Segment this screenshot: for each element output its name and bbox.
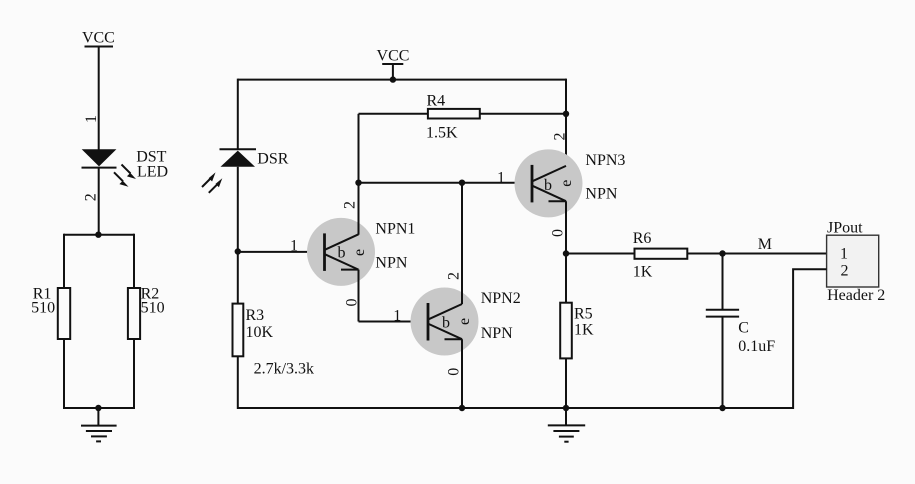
svg-text:2.7k/3.3k: 2.7k/3.3k — [254, 361, 314, 378]
svg-text:NPN: NPN — [375, 255, 407, 272]
wire NPN3 emitter down — [565, 201, 567, 254]
node DSR/R3/NPN1 base — [235, 248, 241, 254]
svg-text:NPN1: NPN1 — [375, 220, 415, 237]
node R6 / C / M — [719, 250, 725, 256]
svg-text:0.1uF: 0.1uF — [738, 338, 775, 355]
svg-text:2: 2 — [552, 133, 569, 141]
svg-text:e: e — [558, 180, 575, 187]
label NPN1 — [375, 220, 415, 271]
svg-text:0: 0 — [446, 368, 463, 376]
connector JPout (Header 2) — [827, 219, 886, 304]
transistor Q NPN3 — [515, 149, 583, 217]
svg-text:b: b — [338, 245, 346, 262]
svg-text:510: 510 — [31, 300, 55, 317]
svg-text:R3: R3 — [246, 307, 265, 324]
node NPN2 emitter at bottom rail — [459, 405, 465, 411]
resistor R5 — [560, 303, 594, 359]
transistor Q NPN2 — [411, 288, 479, 356]
svg-text:DSR: DSR — [257, 151, 288, 168]
wire base rail of NPN3 — [359, 182, 533, 184]
node (left top) — [95, 232, 101, 238]
svg-text:2: 2 — [83, 193, 100, 201]
wire header pin2 — [793, 269, 827, 409]
svg-text:b: b — [544, 177, 552, 194]
svg-text:C: C — [738, 320, 749, 337]
wire rail down to DSR — [237, 79, 239, 150]
transistor Q NPN1 — [307, 218, 375, 286]
wire VCC to LED DST anode — [98, 47, 100, 151]
svg-text:10K: 10K — [246, 324, 274, 341]
wire R2 to bottom — [133, 339, 135, 409]
node at 358.5/182.7 — [355, 180, 361, 186]
wire top rail — [238, 79, 566, 81]
resistor R4 — [359, 93, 567, 142]
svg-text:LED: LED — [137, 163, 168, 180]
svg-text:Header 2: Header 2 — [827, 287, 885, 304]
svg-text:NPN2: NPN2 — [481, 290, 521, 307]
wire R3 to bottom rail — [237, 356, 239, 409]
wire node to R3 — [237, 252, 239, 304]
wire NPN1 emitter down — [358, 270, 360, 322]
wire rail down to NPN3 collector — [565, 79, 567, 166]
node R4 right — [563, 111, 569, 117]
svg-text:1: 1 — [393, 308, 401, 325]
svg-text:VCC: VCC — [377, 48, 410, 65]
wire bottom of R1/R2 loop — [64, 407, 134, 409]
svg-text:510: 510 — [141, 300, 165, 317]
photodiode DSR — [202, 149, 256, 193]
svg-text:e: e — [456, 318, 473, 325]
wire top of R1/R2 loop — [64, 234, 134, 236]
wire R1 to bottom — [63, 339, 65, 409]
wire node to R5 — [565, 254, 567, 303]
svg-text:NPN: NPN — [585, 186, 617, 203]
wire right branch to R2 — [133, 234, 135, 288]
node VCC on top rail — [390, 76, 396, 82]
svg-text:R4: R4 — [427, 93, 446, 110]
svg-text:1.5K: 1.5K — [426, 125, 458, 142]
svg-text:NPN3: NPN3 — [585, 152, 625, 169]
resistor R1 — [31, 286, 70, 340]
wire NPN1 base — [238, 251, 325, 253]
node C bottom — [719, 405, 725, 411]
wire left branch to R1 — [63, 234, 65, 288]
wire C bottom — [722, 317, 724, 409]
svg-text:b: b — [442, 315, 450, 332]
svg-text:1: 1 — [840, 246, 848, 263]
node NPN3 emitter / R5 / R6 — [563, 250, 569, 256]
power VCC (main) — [377, 48, 410, 80]
resistor R3 — [233, 304, 315, 378]
ground (main) — [548, 408, 585, 442]
power VCC (left) — [82, 30, 115, 47]
wire R5 to bottom rail — [565, 358, 567, 409]
wire NPN2 emitter down — [461, 339, 463, 409]
svg-text:2: 2 — [446, 272, 463, 280]
label DST / LED — [136, 149, 168, 181]
svg-text:e: e — [351, 249, 368, 256]
svg-text:R6: R6 — [633, 230, 652, 247]
svg-text:2: 2 — [841, 262, 849, 279]
svg-text:M: M — [758, 236, 772, 253]
wire LED cathode to node — [98, 168, 100, 235]
svg-text:R5: R5 — [574, 306, 593, 323]
svg-text:JPout: JPout — [827, 219, 863, 236]
wire NPN2 base — [359, 321, 429, 323]
wire NPN2 collector up — [461, 183, 463, 304]
node R5 bottom — [563, 405, 569, 411]
svg-text:VCC: VCC — [82, 30, 115, 47]
label NPN2 — [481, 290, 521, 342]
svg-text:2: 2 — [342, 201, 359, 209]
node (left bottom) — [95, 405, 101, 411]
wire DSR to node — [237, 167, 239, 252]
resistor R6 — [566, 230, 827, 281]
svg-text:1: 1 — [497, 170, 505, 187]
node at 462/182.7 — [459, 180, 465, 186]
svg-text:1: 1 — [83, 115, 100, 123]
resistor R2 — [128, 286, 165, 340]
LED DST — [82, 149, 137, 187]
svg-text:1: 1 — [290, 238, 298, 255]
svg-text:0: 0 — [550, 229, 567, 237]
ground (left) — [81, 408, 117, 441]
wire NPN1 collector up to R4 left — [358, 114, 360, 235]
svg-text:NPN: NPN — [481, 325, 513, 342]
wire bottom rail — [238, 407, 793, 409]
svg-text:1K: 1K — [633, 264, 653, 281]
capacitor C — [706, 310, 776, 355]
label NPN3 — [585, 152, 625, 203]
wire C top — [722, 254, 724, 310]
svg-text:1K: 1K — [574, 322, 594, 339]
